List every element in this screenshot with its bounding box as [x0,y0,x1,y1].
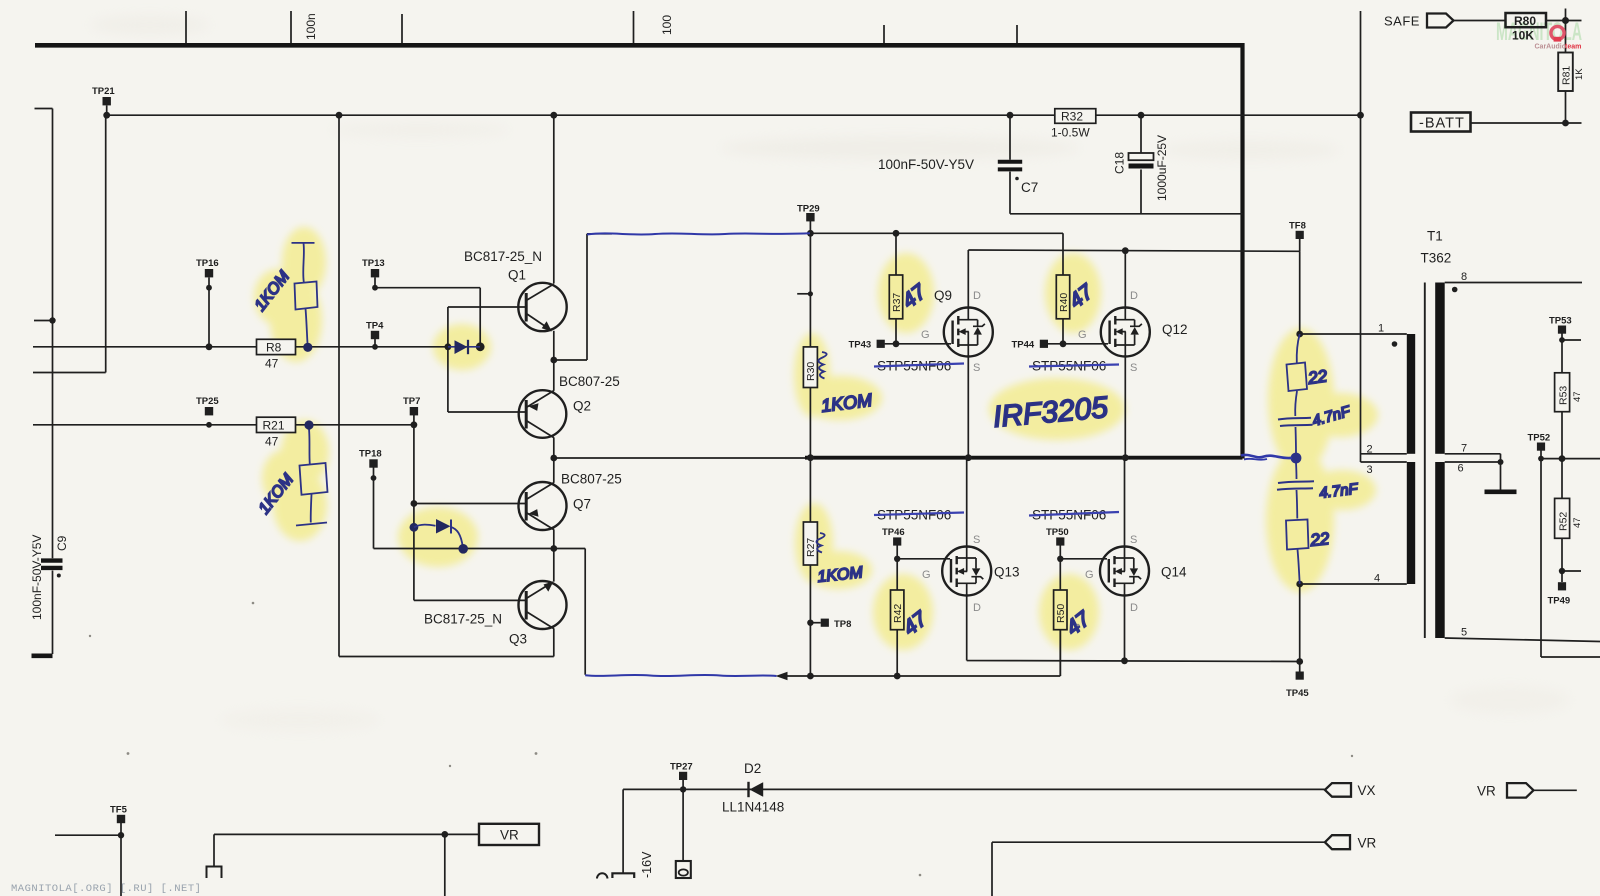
wire Q2 collector down [553,437,555,458]
svg-text:BC817-25_N: BC817-25_N [424,612,502,627]
middle rail thick y457.5 [805,456,1243,460]
wire VR row y842 [992,842,1325,896]
svg-text:TP16: TP16 [196,258,219,269]
svg-text:TP8: TP8 [834,619,851,630]
test point TP29 lead [809,221,811,233]
wire node y360 to vertical x587 [554,234,612,360]
wire resistor-bottom row y676 with left arrow [786,630,1060,676]
svg-text:G: G [1078,329,1087,341]
svg-text:VR: VR [500,828,519,843]
highlight: blue diode at Q7/Q3 [398,507,478,567]
test point TP18 lead [373,468,375,549]
connector pin below VR wire [207,867,222,879]
transistor Q7 [414,482,567,530]
resistor R40 leads [1062,233,1064,343]
wire Q7 emitter up [553,458,555,483]
handwritten lead [1295,391,1297,416]
svg-text:22: 22 [1306,366,1329,388]
diode D2 [747,782,749,797]
svg-text:100nF-50V-Y5V: 100nF-50V-Y5V [878,157,974,172]
MOSFET Q13 [942,547,991,596]
svg-text:-BATT: -BATT [1419,116,1465,132]
resistor R42 [891,590,904,630]
handwritten resistor 1KOM top: T bar [292,242,315,244]
svg-text:Q7: Q7 [573,497,591,512]
svg-text:D: D [973,602,981,614]
resistor R50 [1054,590,1067,630]
svg-text:Q13: Q13 [994,565,1020,580]
svg-text:SAFE: SAFE [1384,14,1420,29]
resistor R52 [1555,498,1570,538]
svg-text:BC807-25: BC807-25 [561,472,622,487]
svg-text:S: S [1130,362,1137,374]
test point squares [103,97,1567,823]
wire TP50 gate row [1060,558,1107,560]
svg-text:R27: R27 [805,538,817,557]
wire Q9 source down [967,357,969,458]
wire R53/R52 row y458.6 [1541,458,1600,460]
transformer T1 left bottom winding bar [1407,462,1415,584]
wire TP21 branch y372 [33,115,106,372]
highlight: R40 + 47 [1045,253,1101,333]
transformer T1 right bottom winding bar [1435,462,1445,638]
svg-text:6: 6 [1458,463,1464,475]
svg-text:C9: C9 [55,535,69,551]
svg-text:47: 47 [265,357,279,371]
wire VX row y789 [623,788,1325,790]
svg-text:TP49: TP49 [1548,596,1571,607]
highlight: handwritten 1KOM resistor bottom [281,420,329,484]
small arc mark [597,873,607,878]
svg-text:Q14: Q14 [1161,565,1187,580]
highlight: R50 + 47 [1039,574,1099,650]
blue strike STP55NF06 (Q9) [874,364,964,367]
svg-text:TP29: TP29 [797,204,820,215]
handwritten chain: lead from pin1 node [1297,334,1300,363]
wire TP18 row y548 [374,548,554,550]
wire R21 row y425 [33,424,414,426]
wire TP44 gate row [1048,343,1108,345]
test point TP16 lead [208,278,210,347]
resistor R21 [257,417,296,432]
svg-text:1K: 1K [1574,68,1585,80]
capacitor C18 leads [1140,115,1142,214]
svg-text:MAGNITOLA: MAGNITOLA [1496,18,1582,46]
svg-text:1-0.5W: 1-0.5W [1051,126,1090,140]
wire Q12 source down [1124,357,1126,458]
resistor R32 in rail [1055,109,1096,124]
svg-text:-16V: -16V [640,851,654,878]
wire pin3 [1361,461,1407,463]
resistor R42 leads [896,559,898,676]
wire Q1 base vertical (to Q2 base) [447,307,449,412]
blue wavy wire y233 [587,233,810,234]
handwritten resistor 22 bottom body [1286,520,1309,550]
bus tick marks [186,11,1017,43]
handwritten diode at Q7/Q3 [410,523,419,532]
resistor R52 leads [1561,459,1563,571]
test point TP7 lead [413,415,415,425]
svg-text:Q9: Q9 [934,288,952,303]
svg-text:CarAudio: CarAudio [1535,44,1567,51]
svg-text:D: D [1130,602,1138,614]
svg-text:G: G [1085,569,1094,581]
svg-text:R80: R80 [1514,14,1536,28]
svg-text:TP27: TP27 [670,762,693,773]
R30 stub tick [797,293,810,295]
handwritten big node dot (R21 row) [304,420,313,429]
svg-text:1000uF-25V: 1000uF-25V [1155,135,1169,201]
svg-text:100n: 100n [304,13,318,40]
highlight: transformer cap/resistor chain [1268,328,1334,472]
svg-text:TP21: TP21 [92,86,115,97]
svg-text:BC807-25: BC807-25 [559,374,620,389]
resistor R37 leads [895,233,897,343]
svg-text:D: D [973,290,981,302]
rail node wire y115 [107,114,1361,116]
resistor R8 [257,339,296,354]
blue wavy wire y675 [585,675,776,676]
capacitor C7 leads [1009,115,1011,214]
wire -BATT row y123 [1471,122,1582,124]
wire pin2 [1361,453,1407,455]
test point TP50 lead [1059,546,1061,559]
test point TP52 vertical [1541,451,1600,658]
blue scribble rail to node [1241,455,1292,458]
capacitor C7 [998,160,1022,164]
wire R80 to node [1546,9,1582,21]
wire Q3 emitter down/left/up [339,115,554,656]
handwritten resistor 22 top body [1287,363,1308,392]
R30 column vertical [809,233,811,457]
resistor R53 [1555,373,1570,412]
wire VR right stub [1534,789,1577,791]
svg-text:TP52: TP52 [1528,433,1551,444]
svg-text:R32: R32 [1061,110,1083,124]
test point TP8 stub [810,622,820,624]
-BATT box [1411,113,1471,132]
test point TP45 [1299,662,1301,672]
wire Q2/Q7 node to rail right [554,457,805,459]
wire Q7 collector down [553,529,555,548]
wire Q13 source up [966,458,968,547]
svg-text:Q3: Q3 [509,632,527,647]
VR flag left [1325,835,1350,849]
svg-text:TF8: TF8 [1289,221,1306,232]
highlight: R27 + 1KOM [795,503,833,583]
wire Q1 collector up [553,115,555,283]
dust specks [89,602,1353,877]
wire Q1 emitter down to node [553,331,555,360]
svg-text:LL1N4148: LL1N4148 [722,800,784,815]
svg-text:G: G [921,329,930,341]
svg-text:S: S [973,534,980,546]
svg-text:T362: T362 [1421,251,1452,266]
handwritten resistor 1KOM bottom: leads [308,429,311,464]
thick vertical bus [1240,43,1244,459]
wire pin7 [1445,454,1501,490]
capacitor C9 [41,558,63,562]
test point TF8 lead [1299,239,1301,251]
logo red ring [1551,26,1564,39]
test point TP21 [106,106,108,116]
VX flag [1325,783,1351,797]
transistor Q1 [448,283,567,332]
handwritten resistor 1KOM bottom: body [300,463,328,495]
handwritten lead to blue node [1295,427,1298,454]
svg-text:R21: R21 [263,419,285,433]
blue strike STP55NF06 (Q13) [874,513,964,516]
corner -16V vertical [622,789,624,872]
svg-text:8: 8 [1461,271,1467,283]
ground bar [1485,489,1517,494]
handwritten lead [1296,490,1299,519]
svg-text:3: 3 [1367,464,1373,476]
highlight: R30 + 1KOM [794,333,830,417]
handwritten capacitor 4.7nF top [1278,418,1311,420]
wire C7/C18 bottom y214 [1010,213,1243,215]
wire pin6 [1445,461,1501,463]
svg-text:T1: T1 [1427,229,1443,244]
transistor Q2 [448,390,566,438]
wire pin5 [1445,638,1600,642]
wire pin4 [1300,583,1407,585]
svg-text:47: 47 [1572,517,1583,528]
MOSFET Q14 [1100,547,1149,596]
top supply bus [35,43,1243,48]
wire pin8 [1445,282,1582,284]
paper smudges [720,136,1080,160]
wire node y548 to vertical x585 [554,549,585,675]
handwritten lead to pin4 [1298,550,1300,585]
svg-text:4: 4 [1374,573,1380,585]
svg-text:TP44: TP44 [1012,340,1035,351]
svg-text:TP46: TP46 [882,527,905,538]
resistor R27 [803,522,817,565]
handwritten resistor 1KOM top: leads [302,243,305,282]
resistor R81 leads [1565,21,1567,124]
svg-text:47: 47 [265,435,279,449]
svg-text:C7: C7 [1021,180,1038,195]
svg-text:Q12: Q12 [1162,322,1188,337]
vertical x1360 from top [1360,11,1362,462]
resistor R40 [1056,275,1069,319]
wire Q9 drain corner [967,250,969,308]
svg-text:TP4: TP4 [366,321,384,332]
svg-text:TP7: TP7 [403,396,420,407]
wire TF8 vertical to pin1 [1299,251,1301,334]
handwritten capacitor 4.7nF bottom [1278,481,1314,483]
wire Q13/Q14 drain row y660 [967,596,1300,662]
svg-text:Q1: Q1 [508,268,526,283]
blue strike STP55NF06 (Q12) [1029,365,1119,367]
svg-text:47: 47 [1572,391,1583,402]
svg-text:S: S [1130,534,1137,546]
svg-text:R81: R81 [1561,66,1573,85]
svg-text:S: S [973,362,980,374]
highlight: diode at Q1 base [433,324,491,370]
svg-text:VR: VR [1477,784,1496,799]
handwritten lead below node [1295,463,1298,480]
handwritten scribble next to R30 [818,352,826,379]
wire pin1 [1300,333,1407,335]
svg-text:VR: VR [1358,836,1377,851]
svg-text:R8: R8 [266,341,282,355]
resistor R53 leads [1561,340,1563,459]
svg-text:Q2: Q2 [573,399,591,414]
highlight: handwritten 1KOM resistor top [282,227,326,297]
svg-text:TP25: TP25 [196,396,219,407]
svg-text:TP50: TP50 [1046,527,1069,538]
wire TP29 row y233 (printed part) [810,232,1063,234]
transformer T1 right top winding bar [1435,283,1445,454]
TP27 connector pin [682,789,684,861]
highlight: R37 + 47 [878,253,934,333]
highlight: R42 + 47 [873,574,933,650]
test point TP13 wire [375,278,480,347]
svg-text:10K: 10K [1512,29,1534,43]
svg-text:TP45: TP45 [1286,688,1309,699]
node stub y320 [34,320,53,322]
wire Q9/Q12 drain row y250 [968,250,1299,251]
svg-text:7: 7 [1461,443,1467,455]
resistor R37 [889,275,902,319]
test point TP53 lead and stub [1562,334,1581,341]
svg-text:100nF-50V-Y5V: 100nF-50V-Y5V [30,535,44,620]
svg-text:5: 5 [1461,627,1467,639]
handwritten scribble next to R27 [816,533,824,553]
svg-text:team: team [1565,44,1581,51]
handwritten diode at Q1 base (over printed wire) [448,346,480,348]
resistor R80 [1506,13,1547,27]
transformer T1 left top winding bar [1407,334,1415,454]
svg-text:G: G [922,569,931,581]
handwritten resistor 1KOM top: body [295,282,318,310]
resistor R50 leads [1059,559,1061,676]
VR flag right [1507,783,1534,798]
svg-text:100: 100 [660,15,674,35]
resistor R30 [803,347,817,388]
svg-text:TP18: TP18 [359,449,382,460]
svg-text:1: 1 [1378,323,1384,335]
MOSFET Q9 [944,308,993,357]
wire: C9 vertical [52,109,54,655]
wire TP7 vertical down [413,425,415,601]
test point TP46 lead [896,546,898,559]
-16V terminal bracket [612,873,634,878]
wire Q2 emitter up [553,360,555,391]
svg-text:TP13: TP13 [362,258,385,269]
test point TP49 stub [1562,571,1581,582]
wire Q3 collector up [553,549,555,582]
test point TF5 wire [55,823,121,896]
wire Q14 source up [1124,458,1126,547]
blue node dot [1291,453,1302,464]
svg-text:R53: R53 [1558,386,1570,405]
svg-text:R30: R30 [805,362,817,381]
svg-text:D2: D2 [744,761,761,776]
svg-text:BC817-25_N: BC817-25_N [464,249,542,264]
test point TP27 lead [682,780,684,789]
R27 column [809,458,811,676]
svg-text:VX: VX [1358,783,1376,798]
svg-text:22: 22 [1308,529,1330,550]
winding polarity dot pin1 [1392,341,1398,347]
handwritten big node dot (R8 row) [303,343,312,352]
capacitor C18 [1129,153,1154,160]
wire TP46 gate row [897,558,950,560]
svg-text:D: D [1130,290,1138,302]
handwritten resistor 1KOM bottom: foot bar [296,523,327,526]
svg-text:MAGNITOLA[.ORG] [.RU] [.NET]: MAGNITOLA[.ORG] [.RU] [.NET] [11,883,201,895]
wire pin4 down to TP45 [1299,584,1301,662]
VR box wire [214,834,479,896]
svg-text:2: 2 [1367,444,1373,456]
highlight: IRF3205 [989,378,1125,440]
wire TP43 gate row [885,343,951,345]
wire Q12 drain [1124,251,1126,308]
test point TP4 lead [374,339,376,347]
transformer core line [1424,283,1426,639]
svg-text:TP43: TP43 [849,340,872,351]
winding polarity dot pin8 [1452,287,1458,293]
svg-text:R52: R52 [1558,512,1570,531]
wire SAFE to R80 [1454,20,1506,22]
wire R8 row y347 [33,346,448,348]
MOSFET Q12 [1101,308,1150,357]
wire: left stub to vertical [35,108,53,110]
svg-text:C18: C18 [1113,152,1127,174]
SAFE flag [1427,14,1454,28]
transistor Q3 [414,581,567,629]
resistor R81 [1558,53,1573,92]
blue strike STP55NF06 (Q14) [1029,512,1119,516]
svg-text:TF5: TF5 [110,805,128,816]
VR box [479,824,539,845]
svg-text:TP53: TP53 [1549,316,1572,327]
